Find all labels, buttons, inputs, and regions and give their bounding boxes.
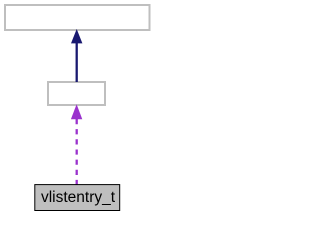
svg-text:vlistentry_t: vlistentry_t [41, 189, 116, 206]
